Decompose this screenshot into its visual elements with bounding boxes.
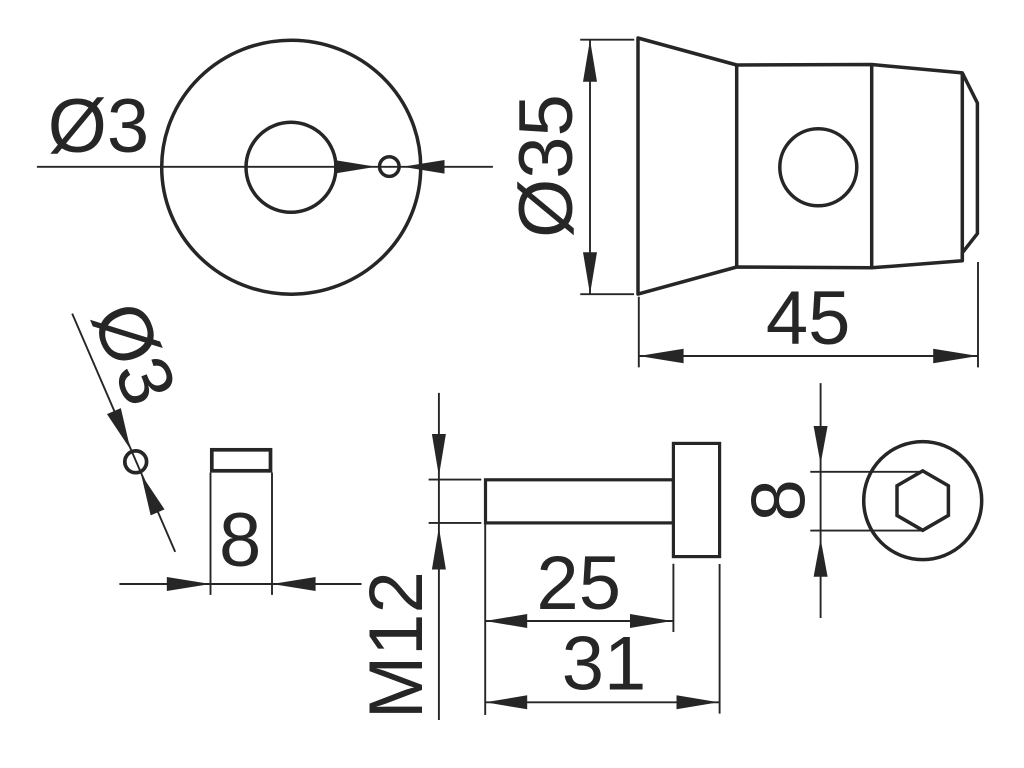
svg-text:45: 45 (766, 276, 851, 361)
svg-text:8: 8 (219, 498, 261, 583)
svg-text:M12: M12 (354, 571, 439, 719)
svg-text:8: 8 (737, 479, 822, 521)
svg-text:Ø35: Ø35 (504, 94, 589, 238)
svg-text:31: 31 (562, 622, 647, 707)
svg-text:Ø3: Ø3 (48, 84, 149, 169)
svg-text:25: 25 (536, 541, 621, 626)
